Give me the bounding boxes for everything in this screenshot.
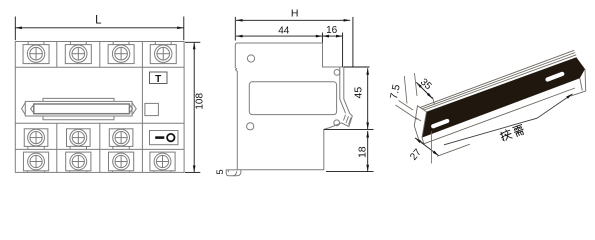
- svg-text:18: 18: [356, 146, 368, 158]
- svg-text:108: 108: [195, 93, 206, 110]
- svg-text:27: 27: [408, 147, 424, 163]
- svg-text:7.5: 7.5: [388, 83, 403, 100]
- svg-text:35: 35: [418, 77, 434, 93]
- svg-text:44: 44: [278, 25, 290, 36]
- svg-text:5: 5: [215, 169, 226, 174]
- svg-text:45: 45: [353, 87, 365, 99]
- svg-text:L: L: [95, 15, 102, 27]
- svg-text:H: H: [291, 8, 299, 20]
- svg-text:T: T: [155, 74, 161, 85]
- svg-text:16: 16: [326, 25, 338, 36]
